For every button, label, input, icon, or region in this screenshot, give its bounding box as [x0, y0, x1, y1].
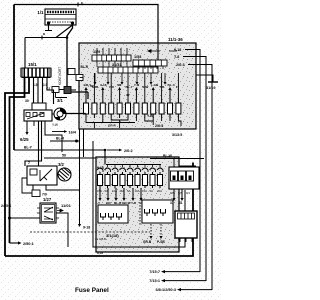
wire 3/8:1 2/50:3 arrow — [181, 289, 212, 291]
svg-text:10A: 10A — [135, 189, 140, 193]
wire 50 horizontal — [44, 157, 96, 159]
fuse panel lower block — [96, 157, 179, 252]
svg-text:31: 31 — [170, 201, 174, 205]
svg-text:GR-R: GR-R — [108, 124, 116, 128]
fuse F7 — [135, 99, 137, 118]
svg-text:11/1-36: 11/1-36 — [168, 37, 183, 42]
svg-text:T-8: T-8 — [174, 55, 179, 59]
svg-text:L-GN: L-GN — [151, 83, 159, 87]
svg-text:BL-R: BL-R — [81, 65, 89, 69]
fuse 1 feed arrow — [85, 90, 87, 99]
wire 15/1 pin1 to left bus — [10, 77, 25, 243]
svg-text:1.5: 1.5 — [43, 83, 48, 87]
junction dot left bus — [8, 217, 11, 220]
arrow to 11/01 — [57, 209, 63, 212]
output arrows below connector 31/31 — [94, 73, 96, 82]
socket — [145, 209, 150, 216]
wire bottom bus to BL-W — [5, 163, 193, 257]
wire 2/50:1 exit — [10, 242, 19, 244]
wire terminal to 6/25 arrow — [26, 121, 28, 132]
relay 1/27 — [40, 203, 56, 223]
svg-text:BL-Y: BL-Y — [126, 85, 134, 89]
svg-text:BL-Y: BL-Y — [24, 146, 33, 150]
socket — [101, 213, 106, 220]
fuse lower 2 — [107, 172, 109, 188]
fuse F2 — [93, 99, 95, 118]
svg-text:9-18: 9-18 — [97, 251, 103, 255]
wire relay side loop — [22, 178, 32, 193]
svg-text:30: 30 — [25, 99, 29, 103]
feed wire from top into 1/53 — [157, 43, 159, 60]
fuse F11 — [169, 99, 171, 118]
bus fuse8-9 — [145, 118, 153, 121]
svg-text:30: 30 — [126, 93, 130, 97]
svg-text:BL-R: BL-R — [114, 201, 122, 205]
socket — [153, 209, 158, 216]
fuse F3 — [102, 99, 104, 118]
wire feed into fuse row — [87, 92, 89, 99]
fuse hook 9 — [157, 168, 163, 172]
fuse hook 4 — [120, 168, 126, 172]
svg-text:Y-R: Y-R — [134, 83, 140, 87]
sensor 3/2 — [58, 168, 71, 181]
svg-text:2/50:1: 2/50:1 — [23, 242, 34, 246]
ground arrow — [181, 189, 183, 198]
wire panel inner drop — [83, 129, 85, 157]
wire left bus to relay 1/27 — [10, 217, 41, 219]
wire ignition lock to panel — [66, 113, 86, 115]
svg-text:SB: SB — [117, 83, 122, 87]
fuse lower 9 — [159, 172, 161, 188]
svg-text:1.5: 1.5 — [33, 83, 38, 87]
svg-text:50: 50 — [62, 154, 66, 158]
bus fuse4-6 — [111, 118, 128, 120]
fuse 4 feed wire — [110, 73, 112, 99]
wire relay 1/27 output to bottom — [56, 213, 68, 247]
svg-text:GR: GR — [106, 201, 111, 205]
node a tick — [41, 36, 43, 40]
svg-text:5A: 5A — [150, 189, 154, 193]
wire down to connector 15/1 — [24, 38, 26, 69]
arrows at 1/53 — [148, 50, 177, 53]
fuse 5 feed arrow — [119, 90, 121, 99]
battery terminal dots — [47, 21, 50, 24]
svg-text:3/13:5: 3/13:5 — [172, 133, 182, 137]
ignition connector — [32, 103, 46, 110]
socket — [109, 213, 114, 220]
wire 2/6:2 with arrow — [107, 149, 119, 151]
fuse F8 — [144, 99, 146, 118]
svg-text:BL-R: BL-R — [56, 137, 65, 141]
bus fuse1-3 — [86, 118, 103, 123]
fuse output arrow GR — [107, 188, 109, 198]
fuse hook 6 — [135, 168, 141, 172]
fuse hook 8 — [150, 168, 156, 172]
fuse lower 6 — [137, 172, 139, 188]
fuse lower 3 — [114, 172, 116, 188]
ignition lock cylinder — [54, 108, 66, 120]
svg-text:KONT.KORT: KONT.KORT — [58, 67, 62, 85]
svg-text:BL-Y: BL-Y — [168, 83, 176, 87]
ground arrow — [173, 189, 175, 198]
svg-text:31/19: 31/19 — [206, 86, 216, 90]
wire to ground 31/19 — [196, 75, 213, 82]
contact box C1 mid — [76, 75, 83, 81]
junction dot BL-Y — [104, 149, 107, 152]
svg-text:F: F — [176, 85, 178, 89]
svg-text:1/1: 1/1 — [37, 10, 44, 15]
fuse 9 feed arrow — [152, 90, 154, 99]
fuse 2 feed wire — [93, 73, 95, 99]
fuse lower 1 — [99, 172, 101, 188]
component 21/2 — [175, 211, 197, 238]
svg-text:Y-B: Y-B — [147, 114, 153, 118]
bus drop — [119, 120, 121, 128]
fuse hook 1 — [97, 168, 103, 172]
svg-text:Fuse Panel: Fuse Panel — [75, 287, 109, 294]
fuse 12 feed wire — [177, 73, 179, 99]
wire panel left drop — [79, 129, 81, 218]
fuse lower 4 — [122, 172, 124, 188]
wire 15/1 pin4 to ignition switch — [37, 77, 39, 103]
svg-text:20A: 20A — [157, 189, 162, 193]
wire 9-18 down arrow — [79, 218, 81, 224]
connector box left — [98, 205, 128, 223]
svg-text:GR-B: GR-B — [143, 240, 152, 244]
dashed arrows GR-B P-SB — [151, 224, 161, 236]
wire exit 1 to 7/15:7 — [185, 50, 200, 273]
svg-text:15A: 15A — [142, 189, 147, 193]
ground 31/19 — [208, 81, 218, 83]
wire exit 3 to 3/8:1 — [188, 65, 212, 291]
connector strip 1/53 — [133, 60, 167, 66]
battery ground stub — [45, 23, 52, 31]
svg-text:31/31: 31/31 — [112, 63, 122, 67]
junction dot BL-R — [75, 140, 78, 143]
socket — [161, 209, 166, 216]
fuse F12 — [177, 99, 179, 118]
fuse output arrow BL-R — [115, 188, 117, 198]
wire mid vertical to right side — [93, 141, 185, 247]
fuse F9 — [152, 99, 154, 118]
fuse hook 3 — [112, 168, 118, 172]
fuse F10 — [161, 99, 163, 118]
wire a to ignition feed — [25, 37, 67, 39]
bus drop — [152, 118, 154, 125]
svg-text:16/4: 16/4 — [69, 131, 77, 135]
node b tick — [77, 3, 79, 7]
contact box C1 upper — [68, 69, 75, 75]
svg-text:31: 31 — [179, 201, 183, 205]
svg-text:7/15:1: 7/15:1 — [149, 279, 160, 283]
svg-text:11/01: 11/01 — [61, 203, 72, 208]
svg-text:Y-B: Y-B — [159, 85, 165, 89]
wire 15/1 pin3 to ignition switch — [33, 77, 35, 103]
wire contact links — [56, 90, 77, 98]
wire short stub — [33, 121, 35, 126]
svg-text:S-W: S-W — [142, 85, 148, 89]
socket with pin — [171, 171, 178, 181]
wire switch to relay left — [25, 121, 42, 166]
connector strip 31/31 — [98, 67, 158, 73]
svg-text:30: 30 — [90, 84, 94, 88]
svg-text:BL-W: BL-W — [163, 154, 173, 158]
contact box C1 left — [52, 87, 59, 93]
svg-text:9-18: 9-18 — [83, 226, 90, 230]
contact box dark — [64, 87, 71, 94]
junction dot on battery feed — [66, 36, 69, 39]
fuse output arrow Y-R — [132, 188, 134, 198]
wire BL-W upper — [150, 158, 204, 160]
fuse hook 2 — [105, 168, 111, 172]
wire left vertical BL-Y feed — [13, 5, 15, 151]
wire switch to lock — [52, 113, 54, 115]
wire to 16/4 with arrow — [52, 131, 64, 133]
fuse F6 — [127, 99, 129, 118]
fuse 6 feed wire — [127, 73, 129, 99]
ignition switch 3/1 — [24, 110, 52, 121]
fuse 7 feed arrow — [135, 90, 137, 99]
battery 1/1 — [45, 9, 76, 25]
wire relay to fuse 7/9 — [32, 185, 34, 190]
wire stub into panel — [80, 77, 84, 79]
fuse F5 — [119, 99, 121, 118]
wire switch to relay coil — [38, 121, 40, 166]
feed stubs above connector 11/9 — [96, 48, 98, 55]
fuse lower 7 — [144, 172, 146, 188]
svg-text:1/27: 1/27 — [43, 197, 52, 202]
bus fuse10-12 — [162, 118, 181, 126]
wire drops into connector box — [174, 159, 184, 169]
svg-text:7/15:7: 7/15:7 — [149, 270, 160, 274]
inline fuse 7/9 — [32, 190, 40, 197]
svg-text:3/8:1/2/50:3: 3/8:1/2/50:3 — [156, 288, 176, 292]
wire BL-R horizontal — [50, 140, 80, 142]
wire 15/1 pin6 to ignition lock — [47, 77, 54, 104]
svg-text:3/1(18): 3/1(18) — [106, 233, 119, 238]
socket — [117, 213, 122, 220]
svg-text:P-SB: P-SB — [157, 240, 165, 244]
fuse panel upper block 11/1-36 — [79, 43, 196, 129]
starter relay — [27, 166, 57, 185]
wire switch to 3/2 feed — [45, 121, 62, 152]
svg-text:3/1: 3/1 — [57, 98, 63, 103]
dashed wire 3/1(18) — [30, 231, 150, 233]
fuse 11 feed arrow — [169, 90, 171, 99]
connector 15/1 double wall — [21, 68, 51, 77]
wire top feed from node b to fuse panel — [14, 5, 158, 44]
bus wire GR-R — [95, 122, 135, 124]
fuse output arrow Y — [99, 188, 101, 198]
svg-text:Y-R: Y-R — [109, 85, 115, 89]
svg-text:3/2: 3/2 — [58, 162, 64, 167]
wire relay output down right — [46, 185, 80, 190]
fuse hook 7 — [142, 168, 148, 172]
socket with pin — [179, 171, 186, 181]
svg-text:9-18: 9-18 — [100, 83, 106, 87]
svg-text:2/6:2: 2/6:2 — [124, 149, 133, 153]
fuse 8 feed wire — [144, 73, 146, 99]
wire battery diagonal strap — [56, 25, 73, 38]
fuse lower 8 — [152, 172, 154, 188]
fuse output arrow GR-W — [123, 188, 125, 198]
svg-text:2/6:5: 2/6:5 — [155, 124, 163, 128]
svg-text:6/25: 6/25 — [20, 137, 29, 142]
scan noise overlay — [0, 0, 221, 300]
svg-text:Y-R: Y-R — [131, 201, 137, 205]
fuse hook 5 — [127, 168, 133, 172]
svg-text:2/6:3: 2/6:3 — [176, 63, 185, 67]
fuse 3 feed arrow — [102, 90, 104, 99]
bus stubs to hooks — [107, 165, 109, 168]
svg-text:9/4: 9/4 — [186, 191, 190, 195]
svg-text:15/1: 15/1 — [28, 62, 37, 67]
svg-text:GR-W: GR-W — [122, 201, 131, 205]
pin stubs below connectors — [96, 61, 98, 67]
svg-text:11/9: 11/9 — [93, 50, 100, 54]
fuse 10 feed wire — [161, 73, 163, 99]
wire GR-W lower — [179, 165, 196, 167]
wire 15/1 pin2 to left bus — [5, 77, 29, 256]
svg-text:1/53: 1/53 — [134, 55, 141, 59]
wire battery positive feed 30 — [67, 23, 88, 92]
connector box far right — [169, 167, 199, 189]
svg-text:24/5:6: 24/5:6 — [1, 204, 11, 208]
svg-text:7: 7 — [28, 161, 30, 165]
fuse F1 — [85, 99, 87, 118]
fuse drop — [135, 118, 137, 121]
wire 7/15:1 arrow — [165, 280, 206, 282]
bus drop — [93, 123, 95, 129]
wire 7/15:7 arrow — [165, 271, 200, 273]
wire exit 2 to 7/15:1 — [183, 57, 206, 282]
fuse lower 5 — [129, 172, 131, 188]
svg-text:5A: 5A — [127, 189, 131, 193]
connector 15/1 — [22, 68, 50, 78]
svg-text:a: a — [43, 32, 45, 36]
svg-text:7/9: 7/9 — [42, 193, 47, 197]
connector strip 11/9 — [92, 55, 131, 61]
lower fuse feed bus — [106, 164, 161, 166]
wire 15/1 pin5 to ignition switch — [42, 77, 44, 103]
svg-text:Y-W: Y-W — [52, 123, 58, 127]
fuse F4 — [110, 99, 112, 118]
svg-text:41 GR-B: 41 GR-B — [95, 237, 106, 241]
dashed drop — [139, 205, 141, 226]
wire BL-Y horizontal into panel — [14, 150, 105, 165]
fuse output arrow SB — [140, 188, 142, 198]
svg-text:9-18: 9-18 — [174, 48, 181, 52]
socket with pin — [187, 171, 194, 181]
connector box right — [142, 200, 173, 223]
